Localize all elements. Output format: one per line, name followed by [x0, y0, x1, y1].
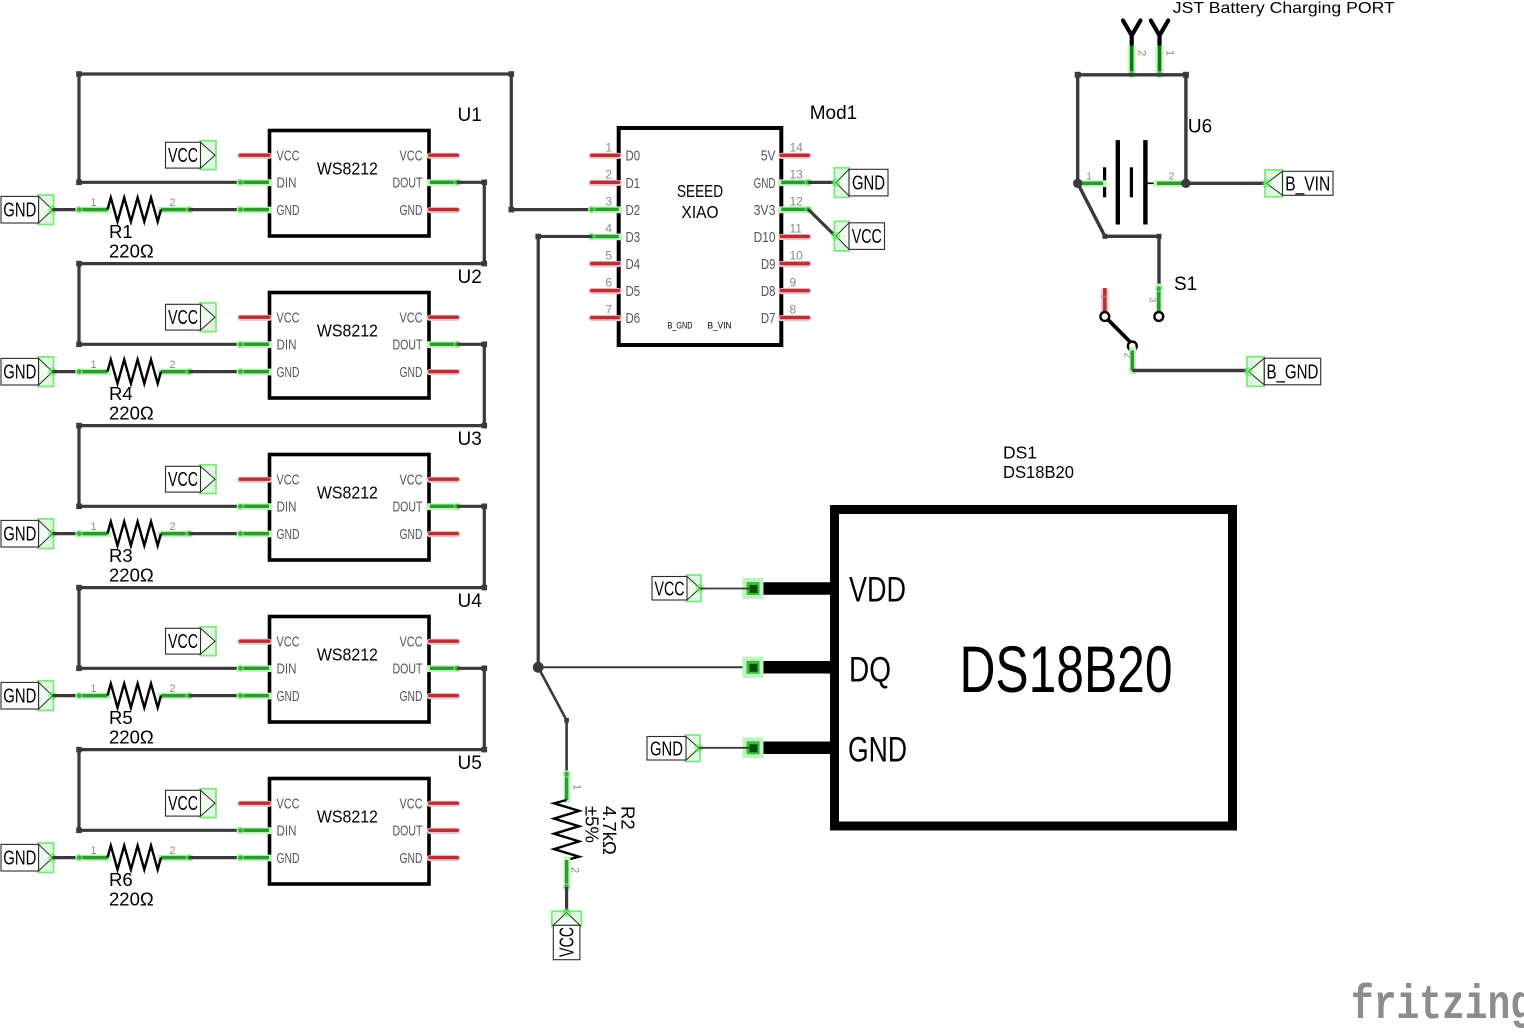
- wire XIAO D3 down to DQ node: [535, 234, 591, 668]
- svg-text:14: 14: [790, 140, 804, 154]
- LED driver U2 WS8212: [236, 267, 481, 398]
- svg-text:B_GND: B_GND: [1266, 362, 1318, 384]
- svg-text:D10: D10: [754, 229, 776, 246]
- wire switch S1 to B_GND: [1132, 369, 1248, 372]
- wire R5 pin 2 to U4 GND: [189, 694, 240, 697]
- svg-text:DOUT: DOUT: [393, 175, 423, 192]
- wire VCC label to VDD pad: [700, 588, 749, 590]
- wire R3 pin 2 to U3 GND: [189, 532, 240, 535]
- svg-text:DIN: DIN: [277, 499, 297, 516]
- svg-text:VCC: VCC: [277, 634, 300, 651]
- svg-text:VCC: VCC: [277, 148, 300, 165]
- svg-text:DIN: DIN: [277, 337, 297, 354]
- svg-text:R1: R1: [109, 221, 133, 242]
- wire GND label to GND pad: [699, 747, 749, 749]
- svg-text:2: 2: [169, 521, 175, 533]
- svg-text:GND: GND: [277, 202, 300, 219]
- svg-text:D2: D2: [626, 202, 641, 219]
- svg-text:GND: GND: [277, 526, 300, 543]
- wire U2 DOUT to U3 DIN: [76, 342, 487, 510]
- svg-text:DIN: DIN: [277, 823, 297, 840]
- wire battery pin 2 to B_VIN: [1186, 182, 1267, 185]
- svg-text:GND: GND: [277, 850, 300, 867]
- wire R2 to VCC label: [565, 887, 568, 913]
- svg-text:VCC: VCC: [277, 310, 300, 327]
- LED driver U4 WS8212: [236, 591, 482, 722]
- wire GND label to R1 pin 1: [53, 208, 80, 211]
- svg-text:XIAO: XIAO: [682, 202, 719, 222]
- svg-text:GND: GND: [277, 364, 300, 381]
- wire XIAO D2 to U1 DIN: [76, 71, 590, 212]
- svg-text:1: 1: [1164, 50, 1176, 56]
- svg-text:GND: GND: [3, 686, 36, 708]
- net label VCC at U3: [166, 465, 217, 494]
- svg-text:SEEED: SEEED: [677, 181, 723, 201]
- svg-text:1: 1: [1098, 294, 1109, 299]
- resistor R5 220ohm: [75, 683, 193, 748]
- svg-text:VCC: VCC: [557, 927, 579, 957]
- svg-text:DOUT: DOUT: [393, 661, 423, 678]
- net label GND at DS18B20 GND: [647, 735, 703, 762]
- svg-text:GND: GND: [400, 688, 423, 705]
- svg-text:VCC: VCC: [400, 148, 423, 165]
- wire GND label to R6 pin 1: [53, 856, 80, 859]
- svg-text:VCC: VCC: [852, 226, 882, 248]
- svg-text:DOUT: DOUT: [393, 337, 423, 354]
- svg-text:2: 2: [169, 197, 175, 209]
- node battery pin 1: [1073, 179, 1082, 188]
- svg-text:D4: D4: [626, 256, 641, 273]
- svg-text:WS8212: WS8212: [317, 483, 378, 503]
- svg-text:GND: GND: [3, 200, 36, 222]
- svg-text:B_VIN: B_VIN: [708, 321, 732, 332]
- svg-text:8: 8: [790, 303, 797, 317]
- switch S1: [1098, 274, 1197, 371]
- svg-text:WS8212: WS8212: [317, 807, 378, 827]
- svg-text:VDD: VDD: [849, 571, 906, 610]
- svg-text:U1: U1: [458, 105, 482, 126]
- svg-text:3: 3: [1147, 297, 1158, 303]
- svg-text:DIN: DIN: [277, 661, 297, 678]
- svg-text:D8: D8: [761, 283, 776, 300]
- svg-text:1: 1: [605, 140, 612, 154]
- svg-text:GND: GND: [3, 524, 36, 546]
- resistor R2 4.7kohm: [554, 770, 638, 891]
- svg-text:1: 1: [90, 197, 96, 209]
- fritzing watermark: [1351, 979, 1524, 1033]
- net label GND at R5: [1, 681, 57, 711]
- svg-text:U6: U6: [1188, 116, 1212, 137]
- svg-text:B_VIN: B_VIN: [1285, 173, 1330, 195]
- LED driver U5 WS8212: [236, 753, 481, 884]
- svg-text:D3: D3: [626, 229, 641, 246]
- svg-text:GND: GND: [400, 526, 423, 543]
- resistor R1 220ohm: [75, 197, 193, 262]
- wire R6 pin 2 to U5 GND: [189, 856, 240, 859]
- svg-text:GND: GND: [3, 362, 36, 384]
- svg-text:DS18B20: DS18B20: [1003, 462, 1074, 482]
- net label VCC at U2: [166, 303, 217, 332]
- wire U1 DOUT to U2 DIN: [76, 180, 487, 348]
- net label GND at R3: [1, 519, 57, 549]
- net label VCC at DS18B20 VDD: [652, 575, 704, 602]
- svg-text:±5%: ±5%: [582, 806, 603, 843]
- svg-text:DS1: DS1: [1003, 442, 1037, 462]
- svg-text:R3: R3: [109, 545, 133, 566]
- svg-text:VCC: VCC: [168, 793, 198, 815]
- svg-text:DOUT: DOUT: [393, 823, 423, 840]
- svg-text:VCC: VCC: [400, 472, 423, 489]
- net label VCC at U5: [166, 789, 217, 818]
- microcontroller Mod1 SEEED XIAO: [588, 103, 857, 345]
- svg-text:2: 2: [169, 845, 175, 857]
- svg-text:DS18B20: DS18B20: [960, 632, 1173, 706]
- svg-text:WS8212: WS8212: [317, 159, 378, 179]
- svg-text:D0: D0: [626, 148, 641, 165]
- svg-text:U4: U4: [458, 591, 483, 612]
- svg-text:GND: GND: [277, 688, 300, 705]
- svg-text:VCC: VCC: [400, 796, 423, 813]
- svg-text:2: 2: [1122, 353, 1133, 359]
- wire GND label to R3 pin 1: [53, 532, 80, 535]
- svg-text:B_GND: B_GND: [668, 321, 693, 332]
- svg-text:U3: U3: [458, 429, 482, 450]
- svg-text:R6: R6: [109, 869, 133, 890]
- net label GND at R4: [1, 357, 57, 387]
- wire GND label to R4 pin 1: [53, 370, 80, 373]
- net label VCC at U1: [166, 141, 217, 170]
- svg-text:220Ω: 220Ω: [109, 241, 154, 262]
- svg-text:WS8212: WS8212: [317, 321, 378, 341]
- battery U6: [1078, 116, 1212, 224]
- svg-text:2: 2: [1136, 50, 1148, 56]
- svg-text:1: 1: [90, 845, 96, 857]
- svg-text:GND: GND: [400, 850, 423, 867]
- wire DQ junction to R2: [538, 667, 569, 774]
- svg-text:10: 10: [790, 249, 804, 263]
- svg-text:7: 7: [605, 303, 612, 317]
- wire R1 pin 2 to U1 GND: [189, 208, 240, 211]
- svg-text:D1: D1: [626, 175, 641, 192]
- svg-text:VCC: VCC: [277, 796, 300, 813]
- svg-text:GND: GND: [650, 738, 683, 760]
- svg-text:GND: GND: [754, 175, 776, 192]
- net label VCC at U4: [166, 627, 217, 656]
- svg-text:WS8212: WS8212: [317, 645, 378, 665]
- svg-text:DQ: DQ: [849, 651, 891, 690]
- svg-text:D7: D7: [761, 310, 776, 327]
- svg-text:5V: 5V: [761, 148, 776, 165]
- svg-text:4: 4: [605, 221, 612, 235]
- svg-text:VCC: VCC: [168, 307, 198, 329]
- svg-text:1: 1: [1086, 170, 1092, 182]
- JST Battery Charging PORT title: [1173, 0, 1395, 17]
- svg-text:2: 2: [169, 359, 175, 371]
- resistor R4 220ohm: [75, 359, 193, 424]
- svg-text:DIN: DIN: [277, 175, 297, 192]
- svg-text:S1: S1: [1174, 274, 1197, 295]
- svg-text:2: 2: [169, 683, 175, 695]
- net label GND at R6: [1, 843, 57, 873]
- svg-text:6: 6: [605, 276, 612, 290]
- svg-text:1: 1: [90, 359, 96, 371]
- temperature sensor DS1 DS18B20: [743, 442, 1233, 826]
- svg-text:5: 5: [605, 249, 612, 263]
- node DQ junction: [533, 662, 544, 673]
- svg-text:13: 13: [790, 167, 804, 181]
- svg-text:JST Battery Charging PORT: JST Battery Charging PORT: [1173, 0, 1395, 17]
- resistor R6 220ohm: [75, 845, 193, 910]
- svg-text:U5: U5: [458, 753, 482, 774]
- wire battery pin 1 to switch S1: [1078, 183, 1162, 287]
- svg-text:VCC: VCC: [277, 472, 300, 489]
- net label VCC at XIAO: [832, 221, 885, 251]
- svg-text:1: 1: [571, 784, 583, 790]
- svg-text:220Ω: 220Ω: [109, 565, 154, 586]
- net label VCC at R2 (rotated): [552, 908, 582, 960]
- svg-text:VCC: VCC: [400, 310, 423, 327]
- svg-text:Mod1: Mod1: [810, 103, 858, 124]
- wire U4 DOUT to U5 DIN: [76, 666, 487, 834]
- svg-text:D9: D9: [761, 256, 776, 273]
- node battery pin 2: [1181, 179, 1190, 188]
- svg-text:GND: GND: [400, 364, 423, 381]
- wire battery top rail: [1075, 72, 1189, 184]
- net label GND at R1: [1, 195, 57, 225]
- net label B_GND: [1244, 357, 1321, 387]
- svg-text:11: 11: [790, 221, 803, 235]
- svg-text:DOUT: DOUT: [393, 499, 423, 516]
- JST connector pins: [1123, 21, 1176, 79]
- svg-text:fritzing: fritzing: [1351, 979, 1524, 1029]
- svg-text:VCC: VCC: [168, 469, 198, 491]
- svg-text:1: 1: [90, 521, 96, 533]
- svg-text:GND: GND: [400, 202, 423, 219]
- svg-text:220Ω: 220Ω: [109, 727, 154, 748]
- wire XIAO 3V3 to net label VCC: [808, 209, 836, 236]
- svg-text:D5: D5: [626, 283, 641, 300]
- svg-text:VCC: VCC: [168, 145, 198, 167]
- wire XIAO GND to net label: [808, 181, 836, 184]
- svg-text:2: 2: [1169, 170, 1175, 182]
- svg-text:3V3: 3V3: [754, 202, 776, 219]
- svg-text:12: 12: [790, 194, 804, 208]
- wire GND label to R5 pin 1: [53, 694, 80, 697]
- svg-text:1: 1: [90, 683, 96, 695]
- svg-text:220Ω: 220Ω: [109, 403, 154, 424]
- svg-text:VCC: VCC: [168, 631, 198, 653]
- svg-text:2: 2: [569, 867, 581, 873]
- svg-text:R5: R5: [109, 707, 133, 728]
- svg-text:U2: U2: [458, 267, 482, 288]
- net label B_VIN: [1262, 170, 1333, 197]
- wire DQ junction to DS18B20 DQ pad: [538, 666, 751, 668]
- svg-text:3: 3: [605, 194, 612, 208]
- wire U3 DOUT to U4 DIN: [76, 504, 487, 672]
- svg-text:VCC: VCC: [400, 634, 423, 651]
- svg-text:9: 9: [790, 276, 797, 290]
- svg-text:GND: GND: [852, 173, 885, 195]
- svg-text:2: 2: [605, 167, 612, 181]
- LED driver U1 WS8212: [236, 105, 481, 236]
- LED driver U3 WS8212: [236, 429, 481, 560]
- svg-text:D6: D6: [626, 310, 641, 327]
- svg-text:VCC: VCC: [655, 578, 685, 600]
- svg-text:GND: GND: [848, 731, 907, 770]
- svg-text:GND: GND: [3, 848, 36, 870]
- resistor R3 220ohm: [75, 521, 193, 586]
- svg-text:220Ω: 220Ω: [109, 889, 154, 910]
- wire R4 pin 2 to U2 GND: [189, 370, 240, 373]
- svg-text:R4: R4: [109, 383, 133, 404]
- net label GND at XIAO: [832, 168, 889, 198]
